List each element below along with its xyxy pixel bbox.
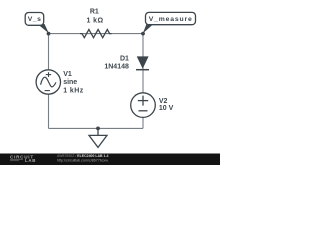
R1 value labels (87, 9, 104, 25)
CircuitLab logo (10, 154, 36, 163)
svg-text:http://circuitlab.com/c/8677bc: http://circuitlab.com/c/8677bcxw (57, 158, 108, 162)
svg-text:V_s: V_s (28, 16, 42, 23)
D1 labels (104, 56, 129, 71)
wire bottom rail (49, 127, 144, 129)
resistor R1 (80, 30, 112, 38)
wire left vertical (48, 34, 50, 129)
svg-text:R1: R1 (90, 9, 99, 16)
svg-text:V2: V2 (159, 98, 168, 105)
svg-text:1 kHz: 1 kHz (63, 88, 84, 95)
big plus (138, 100, 148, 102)
ground (89, 126, 107, 147)
node junction V_s (47, 32, 51, 36)
minus (45, 90, 50, 92)
svg-text:sine: sine (63, 79, 77, 86)
node junction V_measure (141, 32, 145, 36)
plus (46, 74, 51, 76)
wire right vertical (142, 34, 144, 129)
source V2 (131, 93, 156, 118)
svg-text:D1: D1 (120, 56, 129, 63)
node flag V_s (25, 13, 49, 34)
svg-text:V1: V1 (63, 71, 72, 78)
svg-text:LAB: LAB (25, 158, 36, 163)
wire top rail (49, 33, 144, 35)
sine (41, 77, 56, 87)
node flag V_measure (143, 12, 196, 33)
V2 labels (159, 98, 174, 112)
watermark bar (0, 154, 220, 166)
V1 labels (63, 71, 84, 95)
source V1 (36, 70, 60, 94)
big minus (139, 110, 148, 112)
svg-text:1N4148: 1N4148 (104, 64, 129, 71)
svg-text:10 V: 10 V (159, 105, 174, 112)
svg-text:V_measure: V_measure (149, 16, 193, 23)
diode D1 (136, 56, 149, 69)
svg-text:1 kΩ: 1 kΩ (87, 18, 104, 25)
